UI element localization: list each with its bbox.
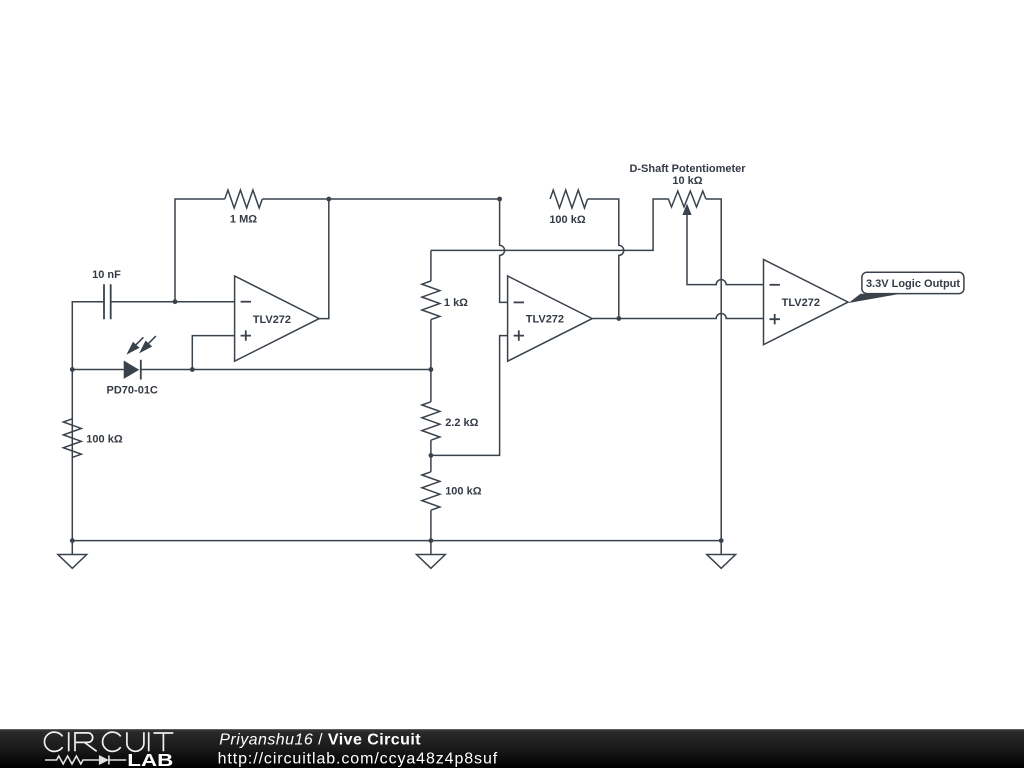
op-amp U1 triangle [235, 276, 320, 361]
svg-text:LAB: LAB [127, 751, 173, 768]
op-amp U2 plus pin symbol [514, 330, 524, 340]
wire: divider mid node right and up to U2 plus input [431, 336, 508, 456]
op-amp U2 minus pin symbol [514, 301, 524, 303]
logo letter T [154, 733, 174, 751]
output flag box 3.3V Logic Output [862, 272, 964, 293]
resistor R1 1 M [225, 190, 262, 208]
resistor R2 100 k (stage 2 feedback) [550, 190, 588, 208]
op-amp U3 plus pin symbol [770, 314, 780, 324]
capacitor C1 10 nF plates [104, 284, 111, 319]
potentiometer wiper arrowhead [682, 204, 691, 216]
svg-text:100 kΩ: 100 kΩ [549, 214, 586, 226]
wire: diode row right segment to divider node [141, 369, 431, 371]
op-amp U3 triangle [764, 260, 849, 345]
wire: 2.2k top lead [430, 370, 432, 402]
ground symbol GND1 (left) [58, 541, 87, 569]
op-amp U2 triangle [508, 276, 593, 361]
photodiode light arrowhead 2 [139, 341, 152, 354]
svg-text:100 kΩ: 100 kΩ [86, 434, 123, 446]
wire: diode row left segment [72, 369, 123, 371]
wire: R2 right lead down to U2 output node (hop over y=250 wire) [588, 199, 624, 319]
svg-text:10 nF: 10 nF [92, 269, 121, 281]
node dot ground bus left [70, 538, 75, 543]
wire: ground bus [72, 540, 721, 542]
photodiode light arrow shaft 1 [136, 337, 144, 345]
svg-text:D-Shaft Potentiometer: D-Shaft Potentiometer [629, 163, 746, 175]
resistor R4 1 k (vertical) [422, 281, 440, 320]
wire: U2 output to U3 plus input (hop over pot ground vertical) [593, 314, 764, 319]
photodiode D1 cathode bar [140, 360, 142, 380]
logo letter I [68, 732, 70, 751]
wire: R1 right lead along y=199 to node B [262, 198, 499, 200]
ground symbol GND2 (middle) [417, 541, 446, 569]
op-amp U1 minus pin symbol [241, 301, 251, 303]
node dot diode cathode branch [190, 367, 195, 372]
node dot divider mid [429, 453, 434, 458]
logo letter R [75, 733, 97, 751]
node dot ground bus middle [429, 538, 434, 543]
resistor R3 100 k (left, vertical) [63, 419, 81, 458]
wire: pot right terminal down to ground bus [706, 199, 721, 541]
wire: pot wiper down and right to U3 minus input (hop over ground vertical) [687, 215, 764, 285]
wire: 100k mid top lead [430, 455, 432, 471]
photodiode D1 anode triangle [124, 361, 140, 379]
logo letter C [103, 732, 121, 751]
logo symbol wire with resistor and diode [45, 756, 126, 765]
wire: R1 feedback left vertical (1 M lead) [175, 199, 225, 302]
node A dot (feedback top) [326, 197, 331, 202]
svg-text:3.3V Logic Output: 3.3V Logic Output [866, 278, 960, 290]
wire: photodiode cathode node up to U1 plus input [192, 336, 234, 370]
svg-text:http://circuitlab.com/ccya48z4: http://circuitlab.com/ccya48z4p8suf [218, 750, 499, 767]
wire: 2.2k bottom lead to divider mid node [430, 440, 432, 455]
output flag tail wedge [849, 294, 901, 303]
wire: U1 output stub up to feedback node A [319, 199, 329, 319]
wire: cap left lead + left rail down to ground bus [72, 302, 104, 541]
wire: stage1-to-pot link at y=250 with corner up to pot left terminal [431, 199, 669, 250]
node dot left rail / diode anode [70, 367, 75, 372]
wire: node B vertical down to U2 minus input (hop over y=250 wire) [500, 199, 508, 302]
logo wordmark CIRCUIT (drawn letters) [44, 732, 173, 751]
logo letter U [127, 732, 144, 751]
op-amp U1 plus pin symbol [241, 330, 251, 340]
svg-text:1 kΩ: 1 kΩ [444, 297, 468, 309]
footer bar [0, 729, 1024, 768]
logo letter C [44, 732, 62, 751]
ground symbol GND3 (right) [707, 541, 736, 569]
op-amp U3 minus pin symbol [770, 284, 780, 286]
svg-text:TLV272: TLV272 [253, 314, 291, 326]
wire: cap right plate to op-amp U1 minus input [111, 301, 235, 303]
resistor R5 2.2 k (vertical) [422, 402, 440, 440]
svg-text:PD70-01C: PD70-01C [107, 384, 158, 396]
logo letter I [148, 732, 150, 751]
photodiode light arrow shaft 2 [148, 336, 156, 344]
svg-text:10 kΩ: 10 kΩ [672, 175, 702, 187]
photodiode light arrowhead 1 [126, 342, 139, 355]
svg-text:1 MΩ: 1 MΩ [230, 213, 257, 225]
logo symbol diode triangle [99, 755, 109, 765]
svg-text:2.2 kΩ: 2.2 kΩ [445, 417, 478, 429]
node dot 1k bottom / diode row [429, 367, 434, 372]
node dot U2 output [616, 316, 621, 321]
wire: 1k bottom lead to diode row node [430, 320, 432, 370]
potentiometer R6 body 10 k [668, 191, 706, 207]
svg-text:TLV272: TLV272 [782, 297, 820, 309]
wire: 100k mid bottom lead to ground bus [430, 510, 432, 540]
node dot ground bus right [719, 538, 724, 543]
svg-text:Priyanshu16 / Vive Circuit: Priyanshu16 / Vive Circuit [219, 732, 421, 749]
node B dot (100k left) [497, 197, 502, 202]
resistor R7 100 k (middle, vertical) [422, 472, 440, 510]
svg-text:TLV272: TLV272 [526, 314, 564, 326]
svg-text:100 kΩ: 100 kΩ [445, 486, 482, 498]
node dot cap/feedback junction [173, 299, 178, 304]
wire: 1k top lead [430, 250, 432, 281]
